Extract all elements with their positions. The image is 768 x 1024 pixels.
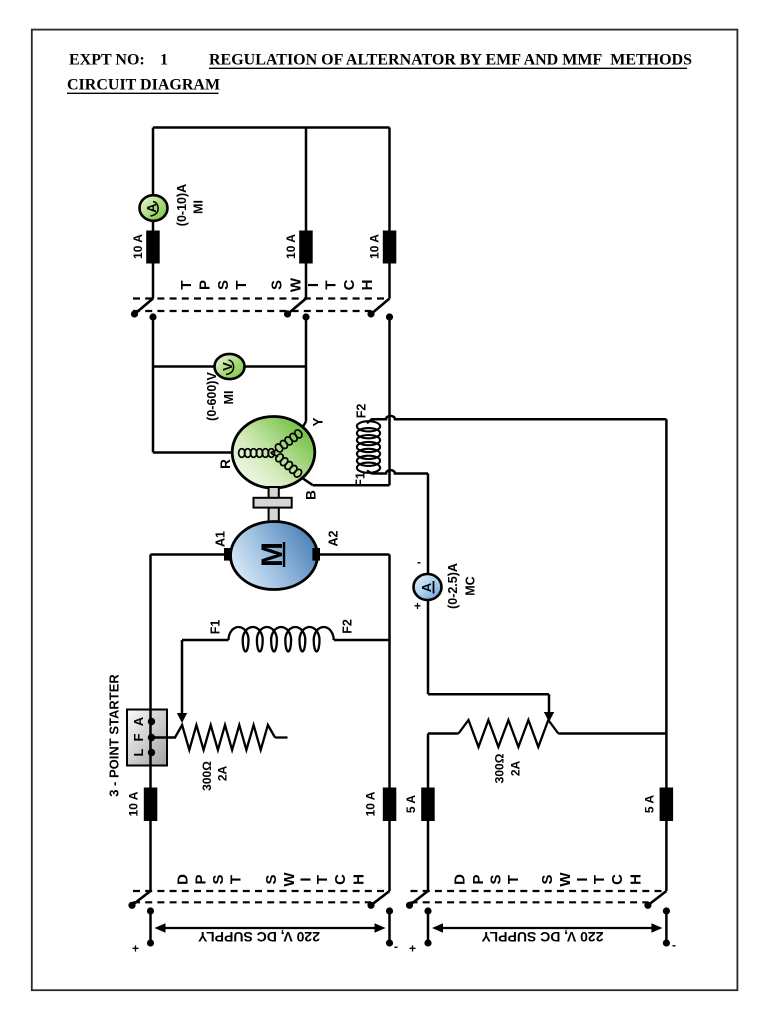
svg-text:-: - xyxy=(417,555,421,569)
voltmeter V (0-600)V MI xyxy=(215,354,245,379)
wire DPST-L pole2 to terminal xyxy=(388,911,391,943)
wire right column A2 down xyxy=(388,555,391,788)
fuse 10A phase Y xyxy=(299,231,313,264)
svg-text:-: - xyxy=(672,938,676,952)
motor body xyxy=(231,522,318,590)
wire F2 lead xyxy=(334,639,390,642)
wire DPST-R pole2 to terminal xyxy=(665,911,668,943)
starter terminal F xyxy=(148,734,155,741)
svg-text:3 - POINT STARTER: 3 - POINT STARTER xyxy=(106,674,121,797)
svg-text:10 A: 10 A xyxy=(131,234,145,259)
svg-text:5 A: 5 A xyxy=(643,795,657,814)
svg-text:10 A: 10 A xyxy=(368,234,382,259)
svg-text:B: B xyxy=(304,490,319,500)
svg-text:5 A: 5 A xyxy=(404,795,418,814)
terminal A2 xyxy=(312,548,320,561)
svg-text:H: H xyxy=(359,280,376,291)
svg-text:W: W xyxy=(287,277,304,292)
svg-text:-: - xyxy=(394,940,398,954)
svg-text:MC: MC xyxy=(463,576,477,595)
wire divider left lead xyxy=(428,732,459,735)
svg-text:C: C xyxy=(332,874,349,885)
svg-text:P: P xyxy=(192,874,209,884)
wire F2 to far right with hop xyxy=(372,416,667,419)
wire to tap corner xyxy=(428,693,549,696)
svg-text:W: W xyxy=(557,872,574,887)
DPST-L pole2 contact xyxy=(386,907,393,914)
svg-text:+: + xyxy=(132,942,139,956)
alternator winding Y-phase xyxy=(274,443,284,454)
DPST-R dashed gang lower xyxy=(411,901,649,903)
ammeter A (0-2.5)A MC xyxy=(414,574,442,600)
svg-text:F1: F1 xyxy=(208,620,222,635)
wire F1 to ammeter column with hop xyxy=(372,470,429,473)
wire A1 to left column xyxy=(151,553,225,556)
svg-text:T: T xyxy=(591,875,608,884)
svg-text:MI: MI xyxy=(222,391,236,405)
wire F1 lead bend xyxy=(367,471,372,474)
DPST-L pole2 blade xyxy=(372,891,390,905)
svg-text:T: T xyxy=(314,875,331,884)
alternator field coil F2-F1 xyxy=(357,421,380,431)
starter terminal L xyxy=(148,749,155,756)
wire divider right lead xyxy=(558,732,666,735)
wire TPST pole3 down to B wire xyxy=(388,317,391,485)
svg-text:T: T xyxy=(178,280,195,289)
wire 5A fuse to DPST-R xyxy=(427,821,430,891)
TPST pole 1 lower contact xyxy=(149,313,156,320)
svg-text:2A: 2A xyxy=(509,760,523,776)
svg-text:F: F xyxy=(131,733,146,741)
DPST-R pole1 contact xyxy=(424,907,431,914)
rheostat 300ohm 2A divider xyxy=(459,720,559,747)
wire phase-R column upper xyxy=(152,128,155,195)
wire phase-B column upper xyxy=(388,128,391,231)
svg-text:H: H xyxy=(350,874,367,885)
starter wire through xyxy=(149,710,152,788)
svg-text:(0-600)V: (0-600)V xyxy=(205,372,219,421)
fuse 5A right xyxy=(660,788,674,822)
wire voltmeter branch right xyxy=(245,365,307,368)
DPST-R pole1 blade xyxy=(411,891,429,905)
svg-text:S: S xyxy=(215,280,232,290)
wire F1 down to MC ammeter xyxy=(427,474,430,575)
alternator winding joints xyxy=(271,450,279,457)
TPST pole 3 lower contact xyxy=(386,313,393,320)
wire DPST-L pole1 to terminal xyxy=(149,911,152,943)
ammeter A (0-10)A MI xyxy=(140,195,168,221)
coupling bar xyxy=(254,498,292,508)
svg-text:D: D xyxy=(451,874,468,885)
TPST pole 2 blade xyxy=(289,299,307,314)
svg-text:S: S xyxy=(268,280,285,290)
svg-text:A: A xyxy=(419,582,434,592)
fuse 5A left xyxy=(421,788,435,822)
svg-text:T: T xyxy=(227,875,244,884)
wire TPST pole2 down to Y bend xyxy=(305,317,308,422)
svg-text:A: A xyxy=(131,716,146,726)
svg-text:H: H xyxy=(627,874,644,885)
wire right fuse to DPST-R xyxy=(665,821,668,891)
svg-text:T: T xyxy=(505,875,522,884)
svg-text:F2: F2 xyxy=(354,404,368,419)
wire F2 lead bend xyxy=(367,419,378,423)
wire armature fuse to DPST xyxy=(388,821,391,891)
wire B lead horizontal xyxy=(313,484,390,487)
DPST-R pole2 contact xyxy=(663,907,670,914)
wire R lead xyxy=(153,451,233,454)
DPST-L dashed gang upper xyxy=(133,890,390,892)
svg-text:I: I xyxy=(297,877,314,881)
wire fuse to TPST pole3 xyxy=(388,264,391,299)
svg-text:P: P xyxy=(196,280,213,290)
fuse 10A armature column xyxy=(383,788,397,822)
wire ammeter to fuse xyxy=(152,222,155,231)
wire fuse to TPST pole1 xyxy=(152,264,155,299)
wire F1 lead xyxy=(182,639,229,642)
TPST pole 1 blade xyxy=(136,299,154,314)
wire MC ammeter down xyxy=(427,600,430,694)
wire tap arrow xyxy=(548,694,551,713)
supply arrow right xyxy=(441,927,653,929)
svg-text:1: 1 xyxy=(160,52,168,69)
wire A2 to right column xyxy=(320,553,390,556)
svg-text:S: S xyxy=(539,874,556,884)
wire top bus xyxy=(153,126,390,129)
svg-text:(0-10)A: (0-10)A xyxy=(175,184,189,226)
svg-text:T: T xyxy=(322,280,339,289)
svg-text:S: S xyxy=(487,874,504,884)
svg-text:W: W xyxy=(281,872,298,887)
svg-text:300Ω: 300Ω xyxy=(493,753,507,783)
wire phase-Y column upper xyxy=(305,128,308,231)
motor field coil xyxy=(229,627,334,652)
svg-text:10 A: 10 A xyxy=(364,791,378,816)
TPST pole 3 blade xyxy=(372,299,390,314)
DPST-R pole2 blade xyxy=(649,891,667,905)
svg-text:I: I xyxy=(305,283,322,287)
svg-text:L: L xyxy=(131,748,146,756)
rheostat 300ohm 2A starter xyxy=(175,725,275,750)
svg-text:10 A: 10 A xyxy=(284,234,298,259)
svg-text:EXPT NO:: EXPT NO: xyxy=(69,52,145,69)
svg-text:+: + xyxy=(409,942,416,956)
svg-text:2A: 2A xyxy=(216,765,230,781)
svg-text:A1: A1 xyxy=(213,531,227,547)
wire voltmeter branch left xyxy=(153,365,215,368)
wire B lead diagonal xyxy=(300,477,313,486)
DPST-R dashed gang upper xyxy=(411,890,667,892)
fuse 10A phase R xyxy=(146,231,160,264)
wire starter fuse to DPST xyxy=(149,821,152,891)
svg-text:220 V, DC SUPPLY: 220 V, DC SUPPLY xyxy=(481,929,604,945)
TPST dashed gang bar upper xyxy=(133,297,390,299)
DPST-L pole1 blade xyxy=(133,891,151,905)
wire far right down to fuse xyxy=(665,734,668,788)
svg-text:P: P xyxy=(470,874,487,884)
starter box xyxy=(127,710,167,766)
svg-text:Y: Y xyxy=(311,417,326,426)
terminal A1 xyxy=(224,548,232,561)
svg-text:+: + xyxy=(414,599,421,613)
wire Y lead diagonal xyxy=(303,422,307,428)
svg-text:I: I xyxy=(574,877,591,881)
DPST-L dashed gang lower xyxy=(133,901,371,903)
svg-text:(0-2.5)A: (0-2.5)A xyxy=(446,563,460,609)
svg-text:C: C xyxy=(341,279,358,290)
svg-text:F2: F2 xyxy=(340,619,354,634)
DPST-L pole1 contact xyxy=(147,907,154,914)
alternator body xyxy=(232,417,315,489)
fuse 10A phase B xyxy=(383,231,397,264)
starter terminal A xyxy=(148,718,155,725)
svg-text:C: C xyxy=(609,874,626,885)
TPST pole 2 lower contact xyxy=(302,313,309,320)
wire fuse to TPST pole2 xyxy=(305,264,308,299)
svg-text:A2: A2 xyxy=(326,530,340,546)
supply arrow left xyxy=(164,927,377,929)
svg-text:REGULATION OF ALTERNATOR BY EM: REGULATION OF ALTERNATOR BY EMF AND MMF … xyxy=(209,52,692,69)
wire divider left down xyxy=(427,734,430,788)
svg-text:D: D xyxy=(174,874,191,885)
wire DPST-R pole1 to terminal xyxy=(427,911,430,943)
TPST dashed gang bar lower xyxy=(133,310,371,312)
wire field drop with arrow xyxy=(181,640,184,714)
svg-text:220 V, DC SUPPLY: 220 V, DC SUPPLY xyxy=(197,929,320,945)
svg-text:F1: F1 xyxy=(353,472,367,487)
wire left column A1 down xyxy=(149,555,152,711)
svg-text:T: T xyxy=(233,280,250,289)
svg-text:10 A: 10 A xyxy=(127,791,141,816)
svg-text:S: S xyxy=(210,874,227,884)
shaft xyxy=(269,487,279,522)
svg-text:R: R xyxy=(218,459,233,469)
alternator winding B-phase xyxy=(274,452,284,463)
svg-text:CIRCUIT DIAGRAM: CIRCUIT DIAGRAM xyxy=(67,77,220,94)
alternator winding R-phase xyxy=(239,449,245,458)
fuse 10A starter column xyxy=(144,788,158,822)
svg-text:300Ω: 300Ω xyxy=(200,761,214,791)
svg-text:MI: MI xyxy=(191,200,205,214)
wire starter F to rheostat xyxy=(152,736,177,739)
wire TPST pole1 down to R xyxy=(152,317,155,453)
wire far right column down xyxy=(665,419,668,733)
svg-text:S: S xyxy=(263,874,280,884)
